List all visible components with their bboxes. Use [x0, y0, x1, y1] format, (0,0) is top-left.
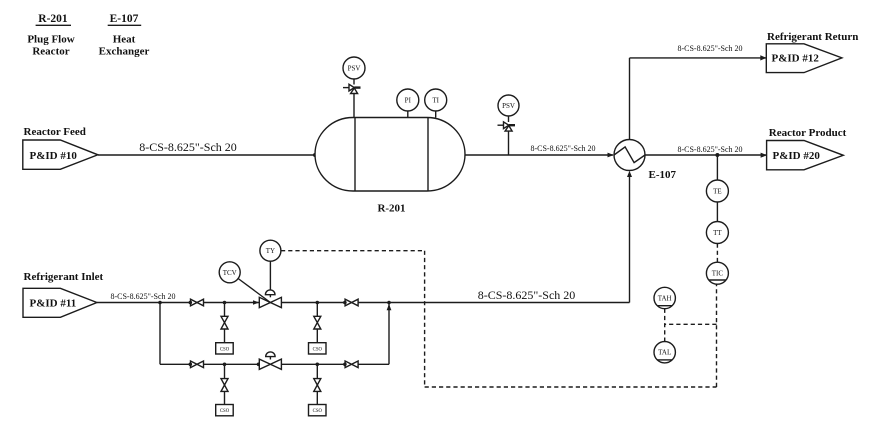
label pipe spec small (product)	[677, 145, 742, 154]
TCV actuator diaphragm	[265, 290, 275, 297]
svg-text:CSO: CSO	[313, 347, 323, 352]
wire branch 3 drop	[224, 364, 226, 404]
legend underline R-201	[36, 24, 71, 26]
wire refrigerant riser to E-107	[629, 177, 631, 303]
svg-text:8-CS-8.625"-Sch 20: 8-CS-8.625"-Sch 20	[478, 288, 576, 302]
wire PSV2 stem upper	[508, 116, 510, 122]
svg-text:Reactor: Reactor	[32, 45, 69, 57]
valve vertical B2	[314, 316, 321, 329]
node product TE tap	[715, 153, 719, 157]
wire refrigerant return line	[630, 57, 767, 59]
globe valve bypass body	[257, 359, 282, 369]
label Refrigerant Return	[767, 31, 858, 43]
svg-text:TI: TI	[432, 97, 439, 105]
svg-text:P&ID #11: P&ID #11	[30, 298, 77, 310]
wire bypass right riser	[388, 303, 390, 365]
node tee branch 1 main	[223, 301, 227, 305]
label E-107	[649, 169, 677, 181]
node bypass right tee	[387, 301, 391, 305]
car seal box CSO B1	[216, 343, 234, 354]
instrument TAH circle	[654, 287, 675, 308]
svg-text:P&ID #20: P&ID #20	[773, 150, 821, 162]
instrument PI stem	[407, 111, 409, 118]
svg-text:R-201: R-201	[377, 203, 405, 215]
signal corner down dashed	[424, 251, 426, 387]
instrument TT circle	[706, 222, 728, 244]
signal TT to TIC dashed	[716, 244, 718, 263]
legend text Heat Exchanger	[99, 33, 150, 57]
gate valve V4 (bypass right)	[343, 361, 358, 368]
instrument TY circle	[260, 240, 281, 261]
heat exchanger E-107	[614, 140, 645, 171]
svg-text:P&ID #10: P&ID #10	[30, 150, 78, 162]
svg-text:TCV: TCV	[223, 269, 237, 277]
legend label E-107	[110, 13, 139, 25]
off-page connector P&ID #20	[767, 141, 844, 170]
node tee branch 3 bypass	[223, 363, 227, 367]
instrument TI circle	[425, 89, 447, 111]
label pipe spec small (outlet)	[530, 144, 595, 153]
instrument TIC circle	[706, 262, 728, 284]
signal TAH branch dashed	[665, 323, 717, 325]
off-page connector P&ID #10	[23, 140, 98, 169]
svg-text:Refrigerant Return: Refrigerant Return	[767, 31, 858, 43]
instrument TCV circle	[219, 262, 240, 283]
car seal box CSO B4	[309, 405, 327, 416]
svg-text:Plug Flow: Plug Flow	[27, 33, 74, 45]
wire PSV1 stem upper	[353, 79, 355, 85]
wire branch 1 drop	[224, 303, 226, 343]
wire bypass line	[160, 363, 389, 365]
vessel R-201	[315, 118, 465, 192]
signal TAH to TAL dashed	[664, 309, 666, 342]
svg-text:TIC: TIC	[712, 270, 724, 278]
instrument TAL panel chord	[657, 359, 672, 361]
svg-text:8-CS-8.625"-Sch 20: 8-CS-8.625"-Sch 20	[530, 144, 595, 153]
instrument PSV1 circle	[343, 57, 365, 79]
svg-text:8-CS-8.625"-Sch 20: 8-CS-8.625"-Sch 20	[677, 145, 742, 154]
svg-text:CSO: CSO	[313, 409, 323, 414]
svg-text:P&ID #12: P&ID #12	[772, 53, 820, 65]
label pipe spec small (inlet)	[110, 292, 175, 301]
flow arrow bypass into main	[387, 304, 392, 310]
valve vertical B1	[221, 316, 228, 329]
label Refrigerant Inlet	[24, 271, 104, 283]
svg-text:TT: TT	[713, 229, 722, 237]
legend underline E-107	[108, 24, 142, 26]
wire PSV1 stem lower	[353, 94, 355, 118]
svg-text:PSV: PSV	[348, 65, 361, 73]
wire TY to actuator	[269, 261, 271, 290]
wire TE to TT	[716, 202, 718, 222]
instrument TIC panel chord	[709, 279, 726, 281]
car seal box CSO B2	[309, 343, 327, 354]
node bypass left tee	[158, 301, 162, 305]
signal riser to TIC dashed	[716, 284, 718, 387]
wire reactor feed line	[98, 154, 315, 156]
wire refrigerant main line	[97, 302, 630, 304]
wire reactor product line	[645, 154, 767, 156]
wire E-107 to return riser	[629, 58, 631, 140]
svg-text:8-CS-8.625"-Sch 20: 8-CS-8.625"-Sch 20	[139, 140, 237, 154]
valve vertical B3	[221, 379, 228, 392]
valve vertical B4	[314, 379, 321, 392]
relief valve PSV2 body	[498, 122, 516, 131]
svg-text:PI: PI	[405, 97, 412, 105]
off-page connector P&ID #12	[766, 44, 842, 73]
control valve TCV body	[259, 297, 281, 307]
flow arrow into P&ID #20	[761, 153, 767, 158]
svg-text:Refrigerant Inlet: Refrigerant Inlet	[24, 271, 104, 283]
node tee branch 2 main	[316, 301, 320, 305]
car seal box CSO B3	[216, 405, 234, 416]
flow arrow into P&ID #12	[760, 55, 766, 60]
instrument TE circle	[706, 180, 728, 202]
svg-text:Reactor Product: Reactor Product	[769, 127, 847, 139]
E-107 zigzag tube	[614, 147, 645, 163]
node feed-vessel junction	[313, 153, 317, 157]
svg-text:TAL: TAL	[658, 349, 671, 357]
wire PSV2 stem lower	[508, 131, 510, 155]
svg-text:TY: TY	[266, 247, 275, 255]
signal TY to corner dashed	[281, 250, 425, 252]
wire TCV link to valve	[238, 279, 270, 303]
gate valve V3 (bypass left)	[189, 361, 204, 368]
label R-201 vessel	[377, 203, 405, 215]
svg-text:8-CS-8.625"-Sch 20: 8-CS-8.625"-Sch 20	[110, 292, 175, 301]
svg-text:PSV: PSV	[502, 102, 515, 110]
svg-text:Heat: Heat	[113, 33, 136, 45]
instrument PI circle	[397, 89, 419, 111]
label Reactor Feed	[24, 126, 86, 138]
vessel tangent line right	[427, 118, 429, 192]
instrument TAH panel chord	[657, 305, 672, 307]
label pipe spec 8-CS-8.625"-Sch 20 (refrigerant mid)	[478, 288, 576, 302]
flow arrow into E-107 left	[608, 153, 614, 158]
legend label R-201	[38, 13, 68, 25]
gate valve V1 (main line)	[189, 299, 204, 306]
instrument TI stem	[435, 111, 437, 118]
instrument PSV2 circle	[498, 95, 519, 116]
wire branch 4 drop	[316, 364, 318, 404]
instrument TAL circle	[654, 342, 675, 363]
svg-text:R-201: R-201	[38, 13, 68, 25]
flow arrow into TCV	[253, 300, 259, 305]
label pipe spec small (return)	[677, 44, 742, 53]
svg-text:Reactor Feed: Reactor Feed	[24, 126, 86, 138]
svg-text:TE: TE	[713, 188, 722, 196]
wire reactor outlet line	[465, 154, 613, 156]
svg-text:CSO: CSO	[220, 409, 230, 414]
svg-text:E-107: E-107	[110, 13, 139, 25]
relief valve PSV1 body	[343, 84, 361, 93]
svg-text:Exchanger: Exchanger	[99, 45, 150, 57]
label Reactor Product	[769, 127, 847, 139]
label pipe spec 8-CS-8.625"-Sch 20 (feed)	[139, 140, 237, 154]
signal bottom run dashed	[425, 386, 717, 388]
wire product line TE stub	[716, 155, 718, 180]
node tee branch 4 bypass	[316, 363, 320, 367]
off-page connector P&ID #11	[23, 288, 97, 317]
svg-text:E-107: E-107	[649, 169, 677, 181]
flow arrow into E-107 bottom	[627, 171, 632, 177]
vessel tangent line left	[354, 118, 356, 192]
wire branch 2 drop	[316, 303, 318, 343]
globe valve handwheel	[266, 352, 275, 360]
svg-text:CSO: CSO	[220, 347, 230, 352]
svg-text:TAH: TAH	[658, 295, 672, 303]
gate valve V2 (main line right)	[343, 299, 358, 306]
svg-text:8-CS-8.625"-Sch 20: 8-CS-8.625"-Sch 20	[677, 44, 742, 53]
legend text Plug Flow Reactor	[27, 33, 74, 57]
wire bypass left drop	[159, 303, 161, 365]
